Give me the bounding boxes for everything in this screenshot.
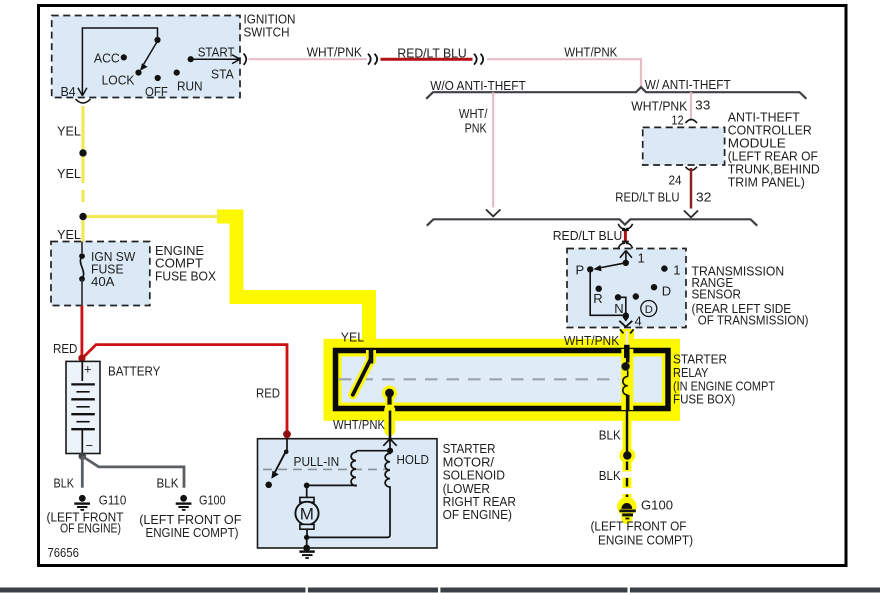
pull-in coil L1: [307, 451, 390, 486]
ignition switch wiper path: [82, 28, 157, 94]
starter relay K1 glow: [324, 339, 681, 421]
svg-text:PNK: PNK: [465, 120, 487, 135]
svg-text:FUSE BOX: FUSE BOX: [155, 268, 216, 283]
svg-text:R: R: [593, 291, 602, 306]
wire BLK relay to junction: [626, 411, 628, 455]
sensor pin 4 arrow: [622, 317, 629, 322]
junction RED at battery positive: [78, 355, 85, 362]
svg-text:YEL: YEL: [57, 124, 81, 139]
wire WHT/PNK relay to solenoid glow: [384, 410, 395, 431]
svg-text:ENGINE COMPT): ENGINE COMPT): [598, 532, 693, 547]
solenoid switch stub: [286, 439, 288, 451]
svg-text:SENSOR: SENSOR: [692, 287, 741, 302]
svg-text:OFF: OFF: [145, 84, 168, 99]
relay switch fixed contact: [385, 389, 394, 411]
junction at solenoid case: [303, 545, 310, 552]
svg-text:G100: G100: [199, 492, 226, 507]
wire YEL junction to fuse box: [81, 217, 84, 242]
svg-text:LOCK: LOCK: [102, 73, 135, 88]
ground G110: [47, 492, 127, 535]
wire crossing relay border tick: [624, 345, 630, 358]
junction on YEL wire: [79, 149, 86, 156]
ignition contact ACC: [121, 54, 127, 60]
engine compt fuse box: [51, 242, 216, 306]
collar marks at relay coil entry: [620, 329, 634, 333]
svg-text:BLK: BLK: [157, 476, 179, 491]
svg-text:32: 32: [696, 190, 712, 205]
solenoid switch armature with arrow: [275, 451, 286, 472]
sensor mid contact: [633, 293, 639, 299]
sensor contact N: [615, 294, 621, 300]
wire WHT/PNK sensor-to-relay glow: [620, 329, 634, 352]
sensor wiper arm to P: [600, 263, 626, 268]
svg-text:YEL: YEL: [57, 227, 81, 242]
svg-text:RED: RED: [256, 386, 280, 401]
connector collar at sensor pin 1: [618, 243, 632, 248]
B4 pin arrow: [78, 88, 87, 96]
svg-text:M: M: [300, 505, 314, 524]
svg-text:G100: G100: [641, 498, 673, 513]
wire BLK battery to G110: [81, 456, 84, 487]
svg-text:SWITCH: SWITCH: [244, 25, 290, 40]
svg-text:W/O ANTI-THEFT: W/O ANTI-THEFT: [430, 78, 526, 93]
junction battery negative: [79, 453, 86, 460]
svg-text:START: START: [198, 44, 235, 59]
solenoid switch contact: [265, 482, 272, 489]
svg-text:1: 1: [638, 250, 645, 265]
wire YEL thick highlighted feed: [224, 217, 369, 347]
sensor N stub: [618, 297, 626, 315]
inline connector C2: [474, 54, 483, 65]
ignition contact LOCK: [135, 70, 141, 76]
sensor pin 4 junction: [623, 312, 629, 318]
battery B1: [66, 361, 100, 453]
svg-text:RED: RED: [53, 341, 77, 356]
wire RED/LT BLU segment: [381, 58, 473, 61]
svg-text:D: D: [662, 284, 671, 299]
inline connector C100: [368, 54, 377, 65]
wire into hold junction: [389, 439, 391, 450]
wire RED/LT BLU module to bus: [690, 168, 693, 209]
junction RED at solenoid: [283, 430, 291, 438]
svg-text:OF ENGINE): OF ENGINE): [60, 520, 121, 535]
svg-text:ACC: ACC: [94, 51, 120, 66]
svg-text:33: 33: [695, 98, 710, 113]
starter motor solenoid box: [258, 439, 517, 548]
svg-text:−: −: [86, 438, 94, 453]
relay switch contact glow: [353, 350, 397, 410]
relay internal dashed line: [339, 378, 619, 380]
svg-text:W/ ANTI-THEFT: W/ ANTI-THEFT: [645, 77, 731, 92]
ignition contact RUN: [174, 70, 180, 76]
sensor contact D: [651, 284, 657, 290]
junction on BLK wire: [623, 451, 631, 459]
wire WHT/PNK sensor to relay (white wire in highlight): [626, 331, 629, 350]
ignition pivot junction: [154, 37, 160, 43]
svg-text:76656: 76656: [48, 546, 79, 560]
svg-text:BLK: BLK: [599, 468, 621, 483]
svg-text:G110: G110: [99, 492, 127, 507]
relay switch armature: [353, 349, 371, 395]
relay coil glow: [621, 349, 633, 410]
wire YEL thin branch to thick feed: [83, 215, 220, 218]
ground G100 left: [139, 492, 241, 539]
svg-text:YEL: YEL: [57, 166, 81, 181]
wire WHT/PNK relay to solenoid: [389, 411, 392, 440]
svg-text:24: 24: [669, 172, 682, 187]
fuse F1 IGN SW 40A: [79, 242, 136, 306]
connector collar below bus: [618, 224, 632, 229]
svg-text:N: N: [614, 301, 623, 316]
option bus upper: [426, 87, 806, 99]
svg-text:TRIM PANEL): TRIM PANEL): [728, 175, 805, 190]
junction motor bottom: [304, 535, 309, 540]
svg-text:WHT/PNK: WHT/PNK: [564, 333, 619, 348]
ground at motor: [299, 552, 314, 558]
chevron at bus2 for W/O branch: [486, 210, 500, 217]
svg-text:P: P: [576, 262, 585, 277]
sensor circled D indicator: [641, 301, 657, 317]
svg-text:40A: 40A: [91, 274, 115, 289]
bottom table bar: [0, 588, 880, 593]
anti-theft controller module U1 box: [643, 110, 820, 190]
svg-text:WHT/PNK: WHT/PNK: [631, 99, 687, 114]
svg-text:RUN: RUN: [177, 79, 203, 94]
wire BLK relay-to-G100 glow: [623, 409, 632, 456]
svg-text:HOLD: HOLD: [397, 452, 429, 467]
svg-text:D: D: [645, 304, 653, 316]
wire BLK battery to G100 left: [82, 456, 184, 487]
sensor pin 4 exit chevron: [619, 321, 632, 327]
svg-text:RED/LT BLU: RED/LT BLU: [553, 228, 623, 243]
option bus lower: [427, 219, 757, 225]
svg-text:WHT/PNK: WHT/PNK: [307, 45, 362, 60]
chevron at bus2 for W/ branch: [684, 211, 698, 218]
START output wire with arrow: [193, 58, 239, 60]
ignition switch S1 box: [52, 12, 296, 98]
svg-text:WHT/: WHT/: [459, 106, 488, 121]
svg-text:ENGINE COMPT): ENGINE COMPT): [146, 525, 239, 540]
wire RED/LT BLU bus to sensor: [624, 230, 627, 243]
sensor contact 1: [661, 265, 667, 271]
svg-text:OF TRANSMISSION): OF TRANSMISSION): [695, 312, 809, 327]
sensor contact P: [587, 266, 593, 272]
connector cup below B4: [76, 99, 91, 103]
svg-text:1: 1: [673, 262, 680, 277]
junction hold coil: [387, 448, 393, 454]
junction pull-in to motor: [304, 483, 310, 489]
connector half at ignition: [244, 54, 247, 65]
sensor contact R: [596, 286, 602, 292]
ignition contact START: [188, 56, 194, 62]
junction YEL to thick feed: [79, 213, 86, 220]
svg-text:(LEFT FRONT OF: (LEFT FRONT OF: [591, 519, 687, 534]
wire motor junction down: [306, 537, 308, 548]
ground G100 glow: [617, 497, 637, 517]
solenoid entry chevron: [383, 439, 396, 446]
ignition armature to LOCK: [144, 41, 158, 65]
svg-text:WHT/PNK: WHT/PNK: [564, 45, 617, 60]
svg-text:YEL: YEL: [341, 330, 364, 345]
svg-text:+: +: [84, 361, 92, 376]
svg-text:WHT/PNK: WHT/PNK: [333, 417, 385, 432]
svg-text:BLK: BLK: [599, 427, 621, 442]
svg-text:12: 12: [671, 113, 683, 128]
wire WHT/PNK w/-anti-theft to module pin 33: [690, 92, 692, 121]
sensor P output path: [590, 271, 626, 315]
sensor wiper junction: [623, 260, 629, 266]
relay coil: [621, 351, 629, 411]
svg-text:OF ENGINE): OF ENGINE): [443, 507, 512, 522]
svg-text:PULL-IN: PULL-IN: [294, 454, 340, 469]
wire WHT/PNK w/o-anti-theft branch: [492, 92, 494, 207]
transmission range sensor box: [567, 249, 809, 328]
svg-text:4: 4: [635, 314, 642, 329]
ground G100 right: [591, 498, 694, 548]
wire RED battery to starter solenoid: [82, 345, 287, 437]
wire BLK dashed junction to G100: [626, 462, 628, 498]
svg-text:BLK: BLK: [54, 476, 75, 491]
hold coil L2: [307, 451, 390, 538]
svg-text:RED/LT BLU: RED/LT BLU: [615, 190, 679, 205]
wire WHT/PNK ignition to connector: [249, 58, 368, 60]
solenoid internal dashed line: [263, 468, 390, 470]
sensor pin 1 arrow: [620, 251, 632, 263]
svg-text:FUSE BOX): FUSE BOX): [673, 391, 735, 406]
wire RED fuse to battery: [81, 306, 84, 357]
wire YEL from B4: [81, 106, 84, 150]
svg-text:B4: B4: [61, 84, 76, 99]
svg-text:STA: STA: [211, 67, 234, 82]
svg-text:BATTERY: BATTERY: [108, 363, 161, 378]
svg-text:RED/LT BLU: RED/LT BLU: [397, 45, 466, 60]
ignition contact OFF: [155, 75, 161, 81]
wire WHT/PNK to anti-theft branch: [487, 59, 641, 87]
wire YEL dashed segment: [81, 157, 84, 203]
motor M1: [295, 485, 318, 537]
starter relay K1 body: [336, 351, 776, 409]
